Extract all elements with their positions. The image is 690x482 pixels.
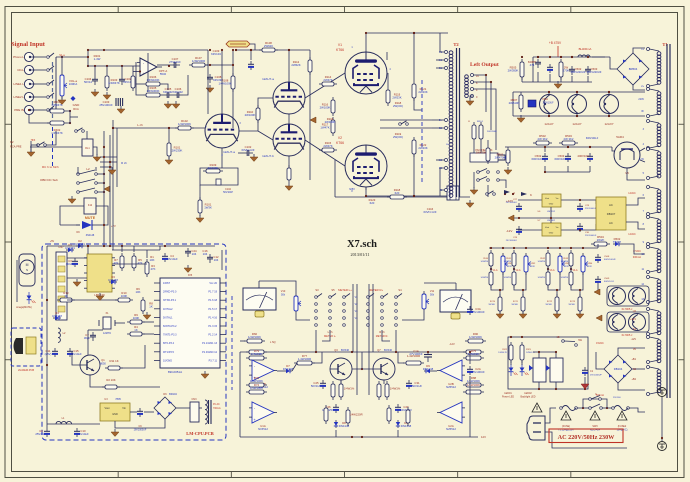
- svg-text:K: K: [530, 193, 532, 197]
- bridge rectifier DB104: [604, 355, 632, 383]
- ground: [466, 98, 474, 106]
- junction: [490, 247, 492, 249]
- resistor R113: [287, 165, 291, 183]
- transformer T1 label: [662, 42, 668, 47]
- label 600V104LF: [586, 137, 599, 140]
- svg-text:100V10UF: 100V10UF: [543, 102, 555, 104]
- svg-text:L SQ: L SQ: [270, 341, 276, 344]
- svg-text:12AU7: 12AU7: [544, 122, 554, 126]
- capacitor C507: [577, 153, 593, 162]
- svg-text:22K: 22K: [588, 266, 592, 268]
- svg-text:Vin: Vin: [556, 227, 559, 229]
- junction: [250, 49, 252, 51]
- junction: [168, 127, 170, 129]
- ground: [201, 371, 209, 379]
- wire: [610, 57, 617, 69]
- wire: [366, 187, 448, 196]
- junction: [106, 65, 108, 67]
- transformer T2 core: [457, 48, 460, 197]
- svg-text:1/4W100K: 1/4W100K: [469, 335, 482, 339]
- junction: [548, 91, 550, 93]
- svg-text:C509: C509: [604, 278, 610, 280]
- resistor R131: [479, 122, 483, 142]
- junction: [587, 56, 589, 58]
- svg-text:63VN.1UF: 63VN.1UF: [241, 148, 254, 152]
- resistor R537: [569, 269, 573, 288]
- wire: [533, 351, 556, 353]
- resistor R107: [189, 56, 208, 67]
- wire: [29, 115, 50, 123]
- junction: [555, 351, 557, 353]
- label V1 KT66: [336, 43, 344, 52]
- svg-text:SW3: SW3: [592, 425, 598, 428]
- earth ground mains: [658, 442, 667, 451]
- wire: [414, 98, 422, 110]
- svg-text:100KA: 100KA: [69, 82, 78, 86]
- tube 12AU7-a second: [273, 82, 305, 114]
- resistor R542 5W10K: [555, 294, 559, 314]
- motor M: [19, 254, 35, 286]
- wire: [440, 189, 444, 191]
- junction: [69, 122, 71, 124]
- wire: [67, 277, 87, 279]
- junction: [525, 247, 527, 249]
- label +B 475V: [549, 41, 562, 57]
- junction: [589, 146, 591, 148]
- junction: [209, 64, 211, 66]
- label 9V AC 700mA: [213, 403, 221, 410]
- junction: [109, 166, 111, 168]
- resistor R85: [406, 407, 410, 426]
- junction: [413, 32, 415, 34]
- label 12AU7-a: [262, 77, 274, 81]
- svg-text:S3: S3: [315, 288, 319, 292]
- svg-text:63V332: 63V332: [173, 90, 183, 94]
- svg-text:P1.7 19: P1.7 19: [208, 291, 217, 294]
- svg-text:1/4W100R: 1/4W100R: [192, 59, 205, 63]
- svg-text:RC22: RC22: [547, 301, 553, 303]
- wire: [522, 290, 524, 297]
- wire: [31, 144, 38, 146]
- bypass loop: [583, 399, 607, 408]
- T1 terminal: [647, 148, 660, 180]
- junction: [570, 247, 572, 249]
- crystal X1: [99, 312, 115, 335]
- wire: [547, 266, 549, 272]
- wire: [132, 66, 134, 73]
- IC U7 LM7912: [538, 220, 561, 236]
- wire: [366, 33, 448, 52]
- wire: [545, 408, 556, 423]
- wire: [133, 246, 135, 252]
- label +12V right: [481, 435, 486, 439]
- wire: [432, 127, 444, 129]
- label VR10 50k: [281, 290, 286, 296]
- resistor R536: [546, 269, 550, 288]
- wire: [258, 281, 260, 288]
- wire: [258, 131, 273, 140]
- label V4-A: [572, 269, 578, 272]
- wire: [120, 345, 145, 368]
- svg-text:1/4W1M: 1/4W1M: [561, 277, 569, 279]
- wire: [88, 329, 103, 331]
- svg-text:5532: 5532: [160, 72, 167, 76]
- junction: [395, 351, 397, 353]
- svg-text:R11 1K: R11 1K: [109, 359, 118, 363]
- tube 12AU7-b: [273, 124, 305, 156]
- wire: [549, 74, 551, 82]
- capacitor C509: [595, 276, 601, 285]
- wire: [587, 76, 589, 82]
- label METER L+: [315, 288, 352, 292]
- op-amp OPT-A: [137, 58, 167, 76]
- svg-text:1B: 1B: [557, 336, 560, 339]
- label V2 KT66: [336, 136, 344, 145]
- T1 terminal: [647, 336, 660, 364]
- diode D3: [108, 275, 118, 284]
- jack LINE1 L: [24, 79, 35, 88]
- wire: [61, 57, 63, 72]
- relay K12 MUTE: [84, 198, 96, 214]
- capacitor C103: [99, 98, 122, 107]
- capacitor C502: [531, 153, 548, 162]
- svg-text:12V: 12V: [481, 435, 486, 439]
- svg-text:400V104: 400V104: [577, 154, 589, 158]
- svg-text:1/4W1M: 1/4W1M: [481, 277, 489, 279]
- socket pair label 0: [622, 307, 633, 311]
- ground: [553, 311, 561, 319]
- resistor R7: [114, 253, 124, 271]
- wire: [159, 246, 161, 250]
- power arrow: [594, 289, 600, 295]
- wire: [544, 147, 546, 152]
- svg-text:B+: B+: [439, 119, 443, 122]
- wire: [537, 72, 539, 82]
- resistor R114: [319, 75, 337, 86]
- resistor R322: [509, 342, 513, 363]
- wire: [436, 159, 444, 161]
- pot label VR3: [565, 263, 570, 268]
- wire: [640, 148, 645, 151]
- label 12AX7: [604, 122, 613, 126]
- socket pair label 1: [622, 333, 633, 337]
- wire: [513, 91, 645, 93]
- wire: [240, 340, 245, 342]
- svg-text:1/4W300K: 1/4W300K: [146, 89, 159, 93]
- title X7.sch: [347, 239, 377, 257]
- svg-text:HF3: HF3: [31, 139, 36, 142]
- junction: [87, 56, 89, 58]
- label -12V: [506, 229, 512, 233]
- svg-text:Signal Input: Signal Input: [11, 41, 46, 48]
- svg-text:C508: C508: [604, 256, 610, 258]
- wire: [589, 166, 591, 172]
- transformer T1 winding: [657, 280, 661, 303]
- label omega(MUTE): [16, 306, 32, 309]
- ground: [164, 101, 172, 109]
- junction: [548, 91, 550, 93]
- svg-text:47K: 47K: [114, 261, 119, 265]
- svg-text:0V: 0V: [633, 348, 636, 351]
- resistor R2: [102, 378, 120, 389]
- ground: [470, 187, 478, 195]
- junction: [46, 299, 48, 301]
- svg-text:50V1UF: 50V1UF: [311, 384, 322, 388]
- svg-text:450V220UF: 450V220UF: [571, 70, 586, 74]
- wire: [136, 62, 143, 95]
- wire: [597, 244, 599, 248]
- svg-text:63V332: 63V332: [163, 90, 173, 94]
- label 12V CPU: [50, 240, 55, 243]
- label L2: [86, 167, 90, 171]
- svg-text:V1-A: V1-A: [492, 269, 498, 272]
- capacitor C501: [547, 64, 553, 73]
- svg-text:V2-A: V2-A: [515, 269, 521, 272]
- label R123: [369, 198, 376, 205]
- wire: [365, 187, 367, 190]
- svg-text:100K: 100K: [121, 294, 128, 298]
- wire: [521, 77, 523, 82]
- label R16: [136, 287, 141, 294]
- fuse FUSE1: [560, 406, 578, 411]
- op-amp U2A: [437, 402, 465, 431]
- label +12V: [506, 199, 513, 203]
- capacitor C29: [577, 203, 583, 212]
- switch K2: [37, 142, 47, 147]
- wire: [59, 214, 61, 225]
- label R119: [325, 117, 336, 124]
- wire: [473, 75, 486, 112]
- junction: [250, 49, 252, 51]
- connector LINE2 L: [14, 95, 25, 99]
- svg-text:14VAC: 14VAC: [628, 192, 636, 195]
- junction: [518, 217, 520, 219]
- wire: [644, 91, 646, 93]
- label 5W10K 2: [545, 301, 552, 306]
- svg-text:220V: 220V: [638, 98, 644, 101]
- wire: [30, 145, 32, 150]
- junction: [582, 247, 584, 249]
- wire: [236, 49, 310, 51]
- resistor R90: [465, 332, 486, 343]
- resistor R501: [495, 147, 510, 166]
- resistor R105: [143, 86, 163, 97]
- svg-text:L ch: L ch: [137, 123, 143, 127]
- svg-text:12AU7-b: 12AU7-b: [262, 154, 274, 158]
- label under V1: [205, 122, 241, 157]
- resistor R541 5W10K: [521, 294, 525, 314]
- svg-text:Q3: Q3: [334, 348, 338, 352]
- resistor R532: [546, 250, 550, 269]
- svg-text:+B2: +B2: [631, 378, 636, 381]
- junction: [570, 268, 572, 270]
- svg-text:2013/01/11: 2013/01/11: [351, 252, 370, 257]
- net flag -12V: [449, 342, 455, 346]
- resistor R108: [259, 41, 278, 52]
- ground: [517, 115, 525, 123]
- label C30: [585, 232, 597, 237]
- svg-text:4/XTAL2: 4/XTAL2: [163, 308, 173, 311]
- capacitor C102b: [241, 145, 254, 156]
- svg-text:104: 104: [214, 258, 219, 262]
- ground: [554, 81, 562, 89]
- junction: [579, 289, 581, 291]
- svg-text:Phono L: Phono L: [13, 55, 24, 59]
- svg-text:10K: 10K: [150, 258, 155, 262]
- svg-text:1/4W1M: 1/4W1M: [561, 261, 569, 263]
- svg-text:S4: S4: [398, 288, 402, 292]
- svg-text:OBD DC Sub: OBD DC Sub: [40, 178, 58, 182]
- wire: [117, 386, 160, 388]
- svg-text:5W10K: 5W10K: [545, 304, 552, 306]
- transformer T1 winding: [657, 312, 661, 335]
- capacitor C503: [554, 153, 571, 162]
- resistor R116: [320, 97, 335, 116]
- svg-text:15VAC: 15VAC: [596, 342, 604, 345]
- earth ground chassis: [658, 388, 667, 397]
- svg-text:2W23K: 2W23K: [418, 146, 427, 150]
- label FUSE2: [617, 425, 628, 432]
- wire: [60, 206, 84, 214]
- wire: [56, 56, 88, 58]
- svg-text:1/4W1M: 1/4W1M: [504, 277, 512, 279]
- svg-text:1/RST: 1/RST: [163, 282, 171, 285]
- arrow K: [521, 192, 532, 197]
- IC DB107: [596, 197, 626, 230]
- junction: [235, 49, 237, 51]
- connector CD-L: [17, 68, 24, 72]
- wire: [473, 142, 475, 153]
- wire: [109, 135, 111, 246]
- op-amp U3B: [249, 360, 277, 389]
- junction: [584, 388, 586, 390]
- junction: [121, 245, 123, 247]
- selector switch matrix left: [315, 294, 350, 327]
- resistor R118: [387, 188, 407, 199]
- resistor R323: [520, 342, 524, 363]
- junction: [87, 49, 89, 51]
- wire: [633, 48, 645, 53]
- label CN5: [202, 249, 208, 256]
- wire: [116, 128, 118, 187]
- capacitor C9: [137, 408, 143, 417]
- wire: [550, 218, 552, 223]
- label C29: [585, 205, 597, 210]
- wire: [473, 172, 475, 188]
- junction: [168, 127, 170, 129]
- resistor R80: [331, 381, 335, 400]
- switch K contact: [486, 191, 496, 196]
- svg-text:Vout: Vout: [104, 407, 109, 410]
- svg-text:600V100K: 600V100K: [554, 157, 567, 161]
- junction: [513, 247, 515, 249]
- T1 winding labels: [638, 48, 644, 301]
- svg-text:(FUSE2: (FUSE2: [618, 425, 627, 428]
- svg-text:AC: AC: [609, 221, 613, 225]
- svg-text:S5: S5: [331, 288, 335, 292]
- inductor L2: [58, 328, 60, 342]
- svg-text:RC h to Mch: RC h to Mch: [42, 165, 59, 169]
- resistor R543 5W10K: [578, 294, 582, 314]
- wire: [305, 73, 345, 98]
- T1 terminal: [647, 246, 660, 274]
- wire: [618, 383, 645, 390]
- dashed divider left: [231, 296, 233, 390]
- IC U2 7805: [100, 398, 130, 421]
- svg-text:22K: 22K: [565, 266, 569, 268]
- label HF3: [31, 139, 36, 142]
- label VOL-a 100KA: [69, 79, 78, 86]
- svg-text:2W100K: 2W100K: [325, 120, 336, 124]
- svg-text:6L7905.J: 6L7905.J: [622, 333, 633, 337]
- wire: [87, 50, 89, 66]
- junction: [103, 146, 105, 148]
- svg-text:N25512: N25512: [446, 427, 456, 431]
- junction: [288, 49, 290, 51]
- wire: [513, 266, 515, 272]
- label R ch METER R-: [376, 330, 389, 338]
- junction: [502, 247, 504, 249]
- junction: [413, 195, 415, 197]
- svg-text:6/INT0-P3.2: 6/INT0-P3.2: [163, 325, 177, 328]
- bias cell labels 1: [504, 258, 512, 279]
- capacitor C508: [528, 98, 554, 107]
- svg-text:25V1000LF: 25V1000LF: [506, 202, 518, 204]
- wire: [567, 166, 569, 172]
- resistor R91: [463, 350, 484, 354]
- junction: [537, 56, 539, 58]
- wire: [133, 71, 137, 73]
- junction: [490, 81, 492, 83]
- wire: [67, 299, 118, 301]
- transformer T1 winding: [657, 370, 661, 393]
- capacitor C503a: [585, 66, 602, 75]
- label C28: [506, 237, 518, 242]
- resistor R122: [412, 137, 428, 157]
- wire: [67, 111, 70, 123]
- wire: [207, 50, 209, 114]
- svg-text:1N4001: 1N4001: [75, 242, 85, 246]
- resistor R74: [246, 383, 267, 394]
- wire: [88, 65, 140, 67]
- svg-text:Vcc 20: Vcc 20: [209, 282, 217, 285]
- diode D9: [423, 364, 434, 373]
- label R402: [51, 128, 63, 135]
- svg-text:C50A: C50A: [542, 98, 548, 101]
- label V2-A: [515, 269, 521, 272]
- wire: [162, 94, 164, 96]
- resistor R82: [324, 405, 328, 424]
- wire: [545, 166, 590, 172]
- svg-text:1N4148: 1N4148: [52, 314, 62, 318]
- svg-text:2W100K: 2W100K: [320, 106, 331, 110]
- wire: [34, 109, 46, 111]
- label S1-a: [59, 53, 65, 57]
- capacitor C3: [66, 258, 78, 267]
- wire: [221, 250, 223, 270]
- svg-text:V1: V1: [338, 43, 342, 47]
- wire: [629, 408, 645, 412]
- resistor R11: [105, 359, 123, 370]
- power arrow: [104, 186, 110, 192]
- capacitor C31: [406, 380, 422, 389]
- junction: [537, 56, 539, 58]
- svg-text:63VN.1UF: 63VN.1UF: [423, 210, 436, 214]
- svg-text:2W(OK): 2W(OK): [393, 135, 403, 139]
- junction: [103, 156, 105, 158]
- transformer T2 primary winding: [449, 51, 453, 198]
- bias bus wire: [489, 247, 598, 249]
